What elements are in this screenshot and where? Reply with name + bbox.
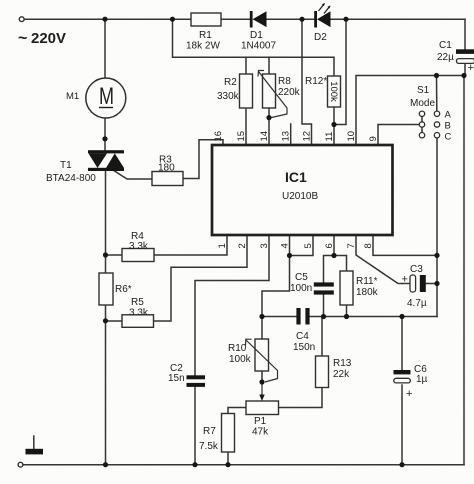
wire C6 top lead (401, 317, 403, 371)
wire pin 7 to C3 (356, 235, 410, 284)
wire pin6 node to R11 top (334, 256, 347, 272)
resistor R13 (316, 356, 329, 388)
wire triac main line down (105, 171, 107, 273)
wire triac gate to R3 (113, 170, 152, 179)
resistor R8 (263, 74, 276, 108)
wire motor to triac (104, 118, 106, 151)
wire R5 left (106, 320, 123, 322)
wire R10 bottom lead (261, 371, 263, 382)
wire R10 top lead (261, 317, 263, 340)
capacitor C2 (187, 375, 206, 387)
wire R3 to pin 16 (183, 140, 223, 179)
potentiometer P1 (246, 401, 279, 415)
wire pin 8 to S1-C line (373, 235, 437, 255)
wire pin6 node to C5 top (324, 256, 335, 283)
wire R5 right to pin 2 (154, 235, 248, 321)
wire pin 13 stub (290, 124, 292, 145)
wire pins 4/5 node down to ramp rail (262, 256, 290, 317)
resistor R2 (240, 74, 253, 108)
LED D2 (314, 11, 330, 28)
pin numbers bottom (217, 243, 374, 248)
switch S1 throw contacts A B C (434, 111, 439, 116)
motor underline mark (99, 107, 113, 109)
trimmer arrow R10 (246, 339, 278, 382)
wire pin 10 riser to S1/C1 rail (356, 76, 464, 146)
wire R12 bottom to pin 11 (333, 107, 335, 145)
wire C6 bottom lead (401, 385, 403, 465)
wire S1 contact C down to pin8 node (436, 138, 438, 317)
terminal top left (19, 17, 24, 22)
wire P1 right to R13 bottom (279, 388, 323, 408)
trimmer arrow R8 (258, 71, 287, 118)
resistor R5 (122, 315, 154, 328)
capacitor C3 (410, 275, 426, 292)
wire ground stub (33, 436, 35, 449)
wire C1 top lead (464, 19, 466, 49)
ground (26, 449, 44, 455)
resistor R3 (152, 172, 183, 186)
wire R4 left (106, 254, 123, 256)
capacitor C6 (394, 370, 411, 383)
wire R2 top stub (245, 57, 247, 74)
resistor R7 (222, 414, 235, 453)
wire bottom rail (24, 464, 465, 466)
paper noise (0, 0, 1, 1)
wire right rail down (463, 76, 465, 465)
wire R2 bottom to pin 15 (245, 108, 247, 145)
wire D2 cathode down to R12 bottom junction (334, 19, 346, 124)
wire ramp rail right segment (310, 316, 438, 318)
wire pin 3 to C2 (195, 235, 269, 376)
wire R11 bottom (346, 305, 348, 317)
wire C3 right to pin8 line (426, 283, 437, 285)
wire C5 bottom to ramp rail (323, 295, 325, 317)
capacitor C4 (296, 308, 309, 325)
wire R8 top stub (268, 57, 270, 74)
wire pin 9 to S1 pole (378, 125, 420, 146)
switch S1 pole contacts (419, 111, 439, 138)
resistor R10 (255, 339, 269, 371)
wire pin 4 pin 5 join (290, 235, 314, 256)
wire P1 left to R7 (228, 408, 246, 414)
wire motor top drop (104, 19, 106, 78)
resistor R6 (99, 273, 113, 305)
wire R13 top (321, 317, 323, 357)
wire S1 contact A to rail (436, 76, 438, 113)
wire R8 bottom to pin 14 (268, 108, 270, 145)
wire S1 pole link (421, 113, 423, 136)
wire top rail (24, 18, 191, 20)
wire C2 bottom to ground rail (194, 387, 196, 465)
capacitor C5 (314, 282, 334, 294)
wire R4 right to pin 1 (154, 235, 227, 255)
capacitor C1 (456, 49, 474, 63)
wire pin 6 drop (333, 235, 335, 256)
resistor R1 (191, 13, 221, 26)
LED D2 arrows (319, 3, 331, 14)
op IC1 body (212, 145, 393, 235)
terminal bottom left (18, 462, 23, 467)
triac T1 (88, 150, 124, 171)
wire C1 bottom lead (464, 64, 466, 76)
wire D1 cathode node down to pin 12 (302, 19, 312, 145)
wire R1 feed branch to R2 R8 R12 (173, 19, 335, 76)
wire R7 bottom (227, 452, 229, 465)
wire ramp rail left segment (262, 316, 297, 318)
motor M1 circle (86, 78, 126, 118)
diode D1 (250, 11, 267, 28)
pin numbers top (213, 131, 379, 142)
resistor R11 (340, 271, 353, 305)
resistor R12 (328, 76, 341, 107)
P1 wiper arrow (259, 382, 264, 401)
resistor R4 (122, 249, 154, 262)
